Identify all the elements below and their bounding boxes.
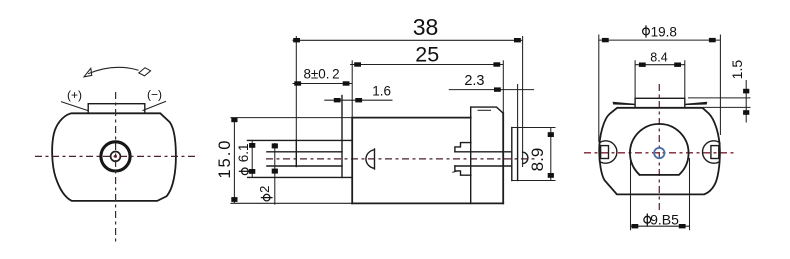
svg-text:(+): (+) (67, 88, 82, 102)
rotation arc arrow (84, 67, 151, 76)
right ear slot (711, 146, 719, 159)
svg-text:1.6: 1.6 (372, 84, 391, 99)
horizontal centerline (rear view) (584, 152, 736, 154)
motor body outline (rear view) (599, 108, 720, 195)
dimension 2.3 (449, 73, 534, 127)
dimension 1.6 (324, 84, 392, 103)
leader line (+) (61, 102, 88, 111)
svg-text:8.9: 8.9 (528, 148, 547, 172)
svg-text:38: 38 (413, 14, 439, 40)
center dot (114, 155, 117, 158)
dimension 38 (293, 14, 523, 167)
left mounting ear (600, 141, 617, 163)
svg-text:8.4: 8.4 (650, 50, 667, 64)
svg-text:1.5: 1.5 (729, 60, 745, 80)
boss front face / 1.6 extension (341, 96, 343, 178)
vertical centerline (rear view) (658, 84, 660, 212)
endcap front step (lower) (455, 166, 471, 175)
svg-text:2: 2 (257, 186, 272, 193)
endcap right edge (502, 113, 504, 203)
svg-text:25: 25 (415, 43, 439, 67)
motor can left edge (351, 118, 353, 204)
left terminal wing (613, 102, 636, 105)
shaft tip / 38 extension line (295, 36, 297, 140)
dimension 1.5 (688, 60, 751, 123)
dimension phi 6.1 (236, 140, 255, 177)
endcap terminal tab top (471, 107, 504, 113)
dimension 15.0 (216, 117, 352, 203)
bearing tube top (455, 151, 512, 153)
rear disc bottom / 8.9 extension line (512, 180, 556, 182)
rear shaft hole circle (blue) (654, 148, 664, 158)
body bottom line (352, 202, 503, 204)
right terminal wing (685, 102, 708, 105)
commutator dome inside body (366, 149, 375, 169)
rear disc top / 8.9 extension line (512, 127, 556, 129)
endcap front step (upper) (455, 143, 471, 152)
front bearing boss circle (101, 142, 130, 171)
dimension 25 (350, 43, 503, 118)
dimension 8 +/- 0.2 (293, 67, 353, 86)
rear disc right edge (517, 128, 519, 181)
svg-text:15.0: 15.0 (216, 139, 234, 179)
svg-text:6.1: 6.1 (236, 143, 251, 162)
left ear slot (601, 146, 609, 159)
svg-text:9.B5: 9.B5 (650, 212, 679, 228)
dimension phi 9.B5 (631, 158, 690, 230)
right mounting ear (703, 141, 720, 163)
tab inner line (478, 109, 492, 111)
motor body outline (front view) (52, 113, 176, 201)
shaft top line (phi 2) (267, 151, 342, 153)
dimension phi 2 (257, 143, 278, 205)
dimension 8.4 (635, 50, 685, 98)
terminal block (rear view) (635, 98, 685, 108)
boss top line (phi 6.1 extension) (248, 139, 353, 141)
svg-text:19.8: 19.8 (651, 24, 677, 39)
leader line (-) (143, 101, 167, 110)
dimension 8.9 (528, 128, 554, 181)
vertical centerline (front view) (115, 92, 117, 243)
motor can top line (352, 117, 471, 119)
rear disc left edge (511, 128, 513, 181)
dimension phi 19.8 (599, 24, 721, 142)
bearing tube bottom (455, 165, 512, 167)
shaft bottom line (267, 165, 342, 167)
svg-text:8±0. 2: 8±0. 2 (303, 67, 339, 82)
can / endcap joint (470, 107, 472, 203)
boss bottom line (phi 6.1 extension) (248, 176, 353, 178)
rear shaft bump (523, 152, 528, 163)
shaft hole circle (111, 152, 121, 162)
step tick (452, 171, 458, 173)
terminal block (front view) (88, 104, 145, 114)
svg-text:(−): (−) (147, 88, 162, 102)
rear endcap boss circle with bottom flat (630, 124, 689, 175)
svg-text:2.3: 2.3 (464, 73, 484, 89)
horizontal centerline (front view) (35, 155, 197, 157)
horizontal centerline (side view) (266, 158, 535, 160)
